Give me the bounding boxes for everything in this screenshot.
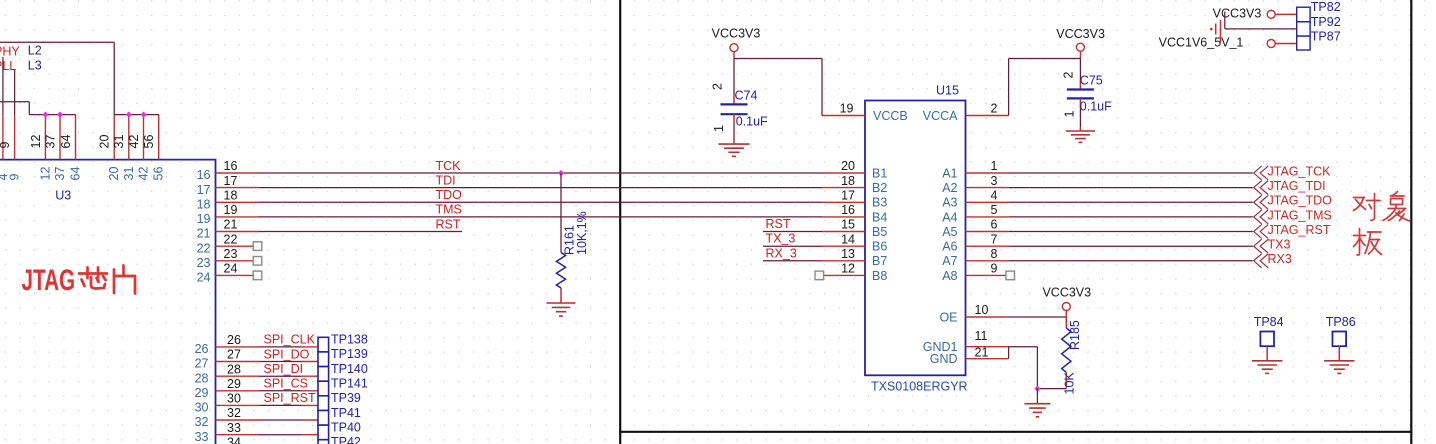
svg-text:33: 33	[195, 430, 209, 444]
svg-text:U3: U3	[55, 189, 71, 203]
svg-text:32: 32	[227, 406, 241, 420]
svg-text:TP42: TP42	[331, 435, 361, 444]
svg-text:SPI_CS: SPI_CS	[264, 377, 308, 391]
svg-text:A3: A3	[942, 196, 957, 210]
svg-text:64: 64	[69, 167, 83, 181]
svg-text:B8: B8	[872, 269, 887, 283]
svg-text:VCC1V6_5V_1: VCC1V6_5V_1	[1159, 36, 1244, 50]
svg-text:0.1uF: 0.1uF	[736, 115, 768, 129]
svg-text:22: 22	[224, 232, 238, 246]
svg-text:OE: OE	[939, 310, 957, 324]
svg-text:21: 21	[197, 227, 211, 241]
svg-text:12: 12	[29, 135, 43, 149]
svg-text:SPI_DO: SPI_DO	[264, 347, 310, 361]
svg-text:12: 12	[38, 167, 52, 181]
svg-text:RST: RST	[766, 217, 791, 231]
svg-text:TCK: TCK	[436, 159, 462, 173]
svg-text:3: 3	[991, 174, 998, 188]
svg-text:10K,1%: 10K,1%	[575, 211, 589, 255]
svg-text:18: 18	[197, 198, 211, 212]
svg-text:TP139: TP139	[331, 347, 368, 361]
svg-text:JTAG_TDO: JTAG_TDO	[1268, 194, 1333, 208]
svg-text:37: 37	[53, 167, 67, 181]
svg-text:RX3: RX3	[1268, 252, 1292, 266]
svg-text:SPI_CLK: SPI_CLK	[264, 333, 316, 347]
svg-text:19: 19	[840, 102, 854, 116]
svg-text:B1: B1	[872, 166, 887, 180]
svg-text:28: 28	[195, 371, 209, 385]
svg-text:B4: B4	[872, 210, 887, 224]
svg-text:L2: L2	[28, 44, 42, 58]
svg-text:16: 16	[224, 159, 238, 173]
svg-text:C75: C75	[1080, 74, 1103, 88]
svg-text:C74: C74	[735, 89, 758, 103]
svg-text:U15: U15	[936, 84, 959, 98]
svg-text:64: 64	[59, 135, 73, 149]
svg-text:10: 10	[975, 303, 989, 317]
svg-text:PLL: PLL	[0, 59, 16, 73]
svg-text:16: 16	[841, 203, 855, 217]
svg-text:13: 13	[841, 247, 855, 261]
svg-text:GND: GND	[930, 352, 958, 366]
svg-text:32: 32	[195, 415, 209, 429]
svg-text:2: 2	[711, 83, 725, 90]
svg-text:TX_3: TX_3	[766, 232, 796, 246]
svg-text:A7: A7	[942, 254, 957, 268]
svg-text:18: 18	[841, 174, 855, 188]
svg-text:TDO: TDO	[436, 188, 463, 202]
svg-text:12: 12	[841, 262, 855, 276]
svg-text:JTAG_RST: JTAG_RST	[1268, 223, 1331, 237]
svg-text:TP141: TP141	[331, 377, 368, 391]
svg-text:16: 16	[197, 168, 211, 182]
svg-text:A2: A2	[942, 181, 957, 195]
svg-text:TP82: TP82	[1311, 0, 1341, 14]
svg-text:27: 27	[227, 348, 241, 362]
svg-text:B2: B2	[872, 181, 887, 195]
svg-text:9: 9	[0, 142, 12, 149]
svg-text:11: 11	[975, 329, 988, 343]
svg-text:24: 24	[224, 262, 238, 276]
svg-text:B7: B7	[872, 254, 887, 268]
svg-text:RX_3: RX_3	[766, 246, 797, 260]
svg-text:VCC3V3: VCC3V3	[712, 27, 761, 41]
svg-text:TX3: TX3	[1268, 238, 1291, 252]
svg-text:TP87: TP87	[1311, 30, 1341, 44]
svg-text:20: 20	[841, 159, 855, 173]
svg-text:PHY: PHY	[0, 45, 20, 59]
svg-text:19: 19	[197, 212, 211, 226]
svg-text:29: 29	[195, 386, 209, 400]
svg-text:1: 1	[1063, 111, 1077, 118]
svg-text:22: 22	[197, 241, 211, 255]
svg-text:1: 1	[991, 159, 998, 173]
svg-text:2: 2	[991, 102, 998, 116]
svg-text:21: 21	[224, 218, 238, 232]
svg-text:27: 27	[195, 357, 209, 371]
svg-text:TXS0108ERGYR: TXS0108ERGYR	[871, 380, 968, 394]
svg-text:2: 2	[1062, 72, 1076, 79]
svg-text:VCC3V3: VCC3V3	[1042, 285, 1091, 299]
svg-text:TP41: TP41	[331, 406, 361, 420]
svg-text:6: 6	[991, 218, 998, 232]
svg-text:JTAG_TMS: JTAG_TMS	[1268, 208, 1332, 222]
svg-text:31: 31	[112, 135, 126, 149]
svg-text:10K: 10K	[1063, 372, 1077, 395]
svg-text:TP140: TP140	[331, 362, 368, 376]
svg-text:7: 7	[991, 232, 998, 246]
svg-text:A6: A6	[942, 240, 957, 254]
svg-text:5: 5	[991, 203, 998, 217]
svg-text:A8: A8	[942, 269, 957, 283]
svg-text:23: 23	[197, 256, 211, 270]
svg-text:20: 20	[107, 167, 121, 181]
svg-text:0.1uF: 0.1uF	[1080, 100, 1112, 114]
svg-text:VCC3V3: VCC3V3	[1213, 6, 1262, 20]
svg-text:30: 30	[227, 392, 241, 406]
svg-text:RST: RST	[436, 217, 461, 231]
svg-text:37: 37	[43, 135, 57, 149]
svg-text:B3: B3	[872, 196, 887, 210]
svg-text:9: 9	[8, 174, 22, 181]
svg-text:VCCB: VCCB	[873, 109, 908, 123]
svg-text:L3: L3	[28, 58, 42, 72]
svg-text:TP40: TP40	[331, 420, 361, 434]
svg-text:21: 21	[975, 346, 989, 360]
svg-text:33: 33	[227, 421, 241, 435]
svg-text:34: 34	[227, 436, 241, 444]
svg-text:8: 8	[991, 247, 998, 261]
svg-text:17: 17	[197, 183, 211, 197]
svg-text:15: 15	[841, 218, 855, 232]
svg-text:VCCA: VCCA	[923, 109, 958, 123]
svg-text:14: 14	[841, 232, 855, 246]
svg-text:42: 42	[127, 135, 141, 149]
svg-text:TP138: TP138	[331, 333, 368, 347]
svg-text:1: 1	[712, 125, 726, 132]
svg-text:TMS: TMS	[436, 203, 462, 217]
svg-text:56: 56	[142, 135, 156, 149]
svg-text:26: 26	[195, 342, 209, 356]
svg-text:31: 31	[122, 167, 136, 181]
svg-text:4: 4	[991, 189, 998, 203]
svg-text:B5: B5	[872, 225, 887, 239]
svg-text:29: 29	[227, 377, 241, 391]
svg-text:B6: B6	[872, 240, 887, 254]
svg-text:23: 23	[224, 247, 238, 261]
svg-text:19: 19	[224, 203, 238, 217]
svg-text:JTAG_TDI: JTAG_TDI	[1268, 179, 1326, 193]
svg-text:56: 56	[152, 167, 166, 181]
svg-text:TP86: TP86	[1326, 315, 1356, 329]
svg-text:TDI: TDI	[436, 173, 456, 187]
svg-text:VCC3V3: VCC3V3	[1056, 27, 1105, 41]
svg-text:30: 30	[195, 401, 209, 415]
svg-text:JTAG_TCK: JTAG_TCK	[1268, 164, 1332, 178]
svg-text:SPI_DI: SPI_DI	[264, 362, 304, 376]
svg-text:A5: A5	[942, 225, 957, 239]
svg-text:SPI_RST: SPI_RST	[264, 391, 316, 405]
svg-text:24: 24	[197, 271, 211, 285]
svg-text:R185: R185	[1068, 320, 1082, 350]
svg-text:26: 26	[227, 333, 241, 347]
svg-text:A4: A4	[942, 210, 957, 224]
svg-text:18: 18	[224, 189, 238, 203]
svg-text:TP39: TP39	[331, 391, 361, 405]
svg-text:42: 42	[137, 167, 151, 181]
svg-text:TP84: TP84	[1254, 315, 1284, 329]
svg-text:28: 28	[227, 362, 241, 376]
svg-text:17: 17	[841, 189, 855, 203]
svg-text:9: 9	[991, 262, 998, 276]
svg-text:A1: A1	[942, 166, 957, 180]
svg-text:JTAG: JTAG	[22, 264, 76, 297]
svg-text:TP92: TP92	[1311, 15, 1341, 29]
svg-text:17: 17	[224, 174, 238, 188]
svg-text:20: 20	[98, 135, 112, 149]
